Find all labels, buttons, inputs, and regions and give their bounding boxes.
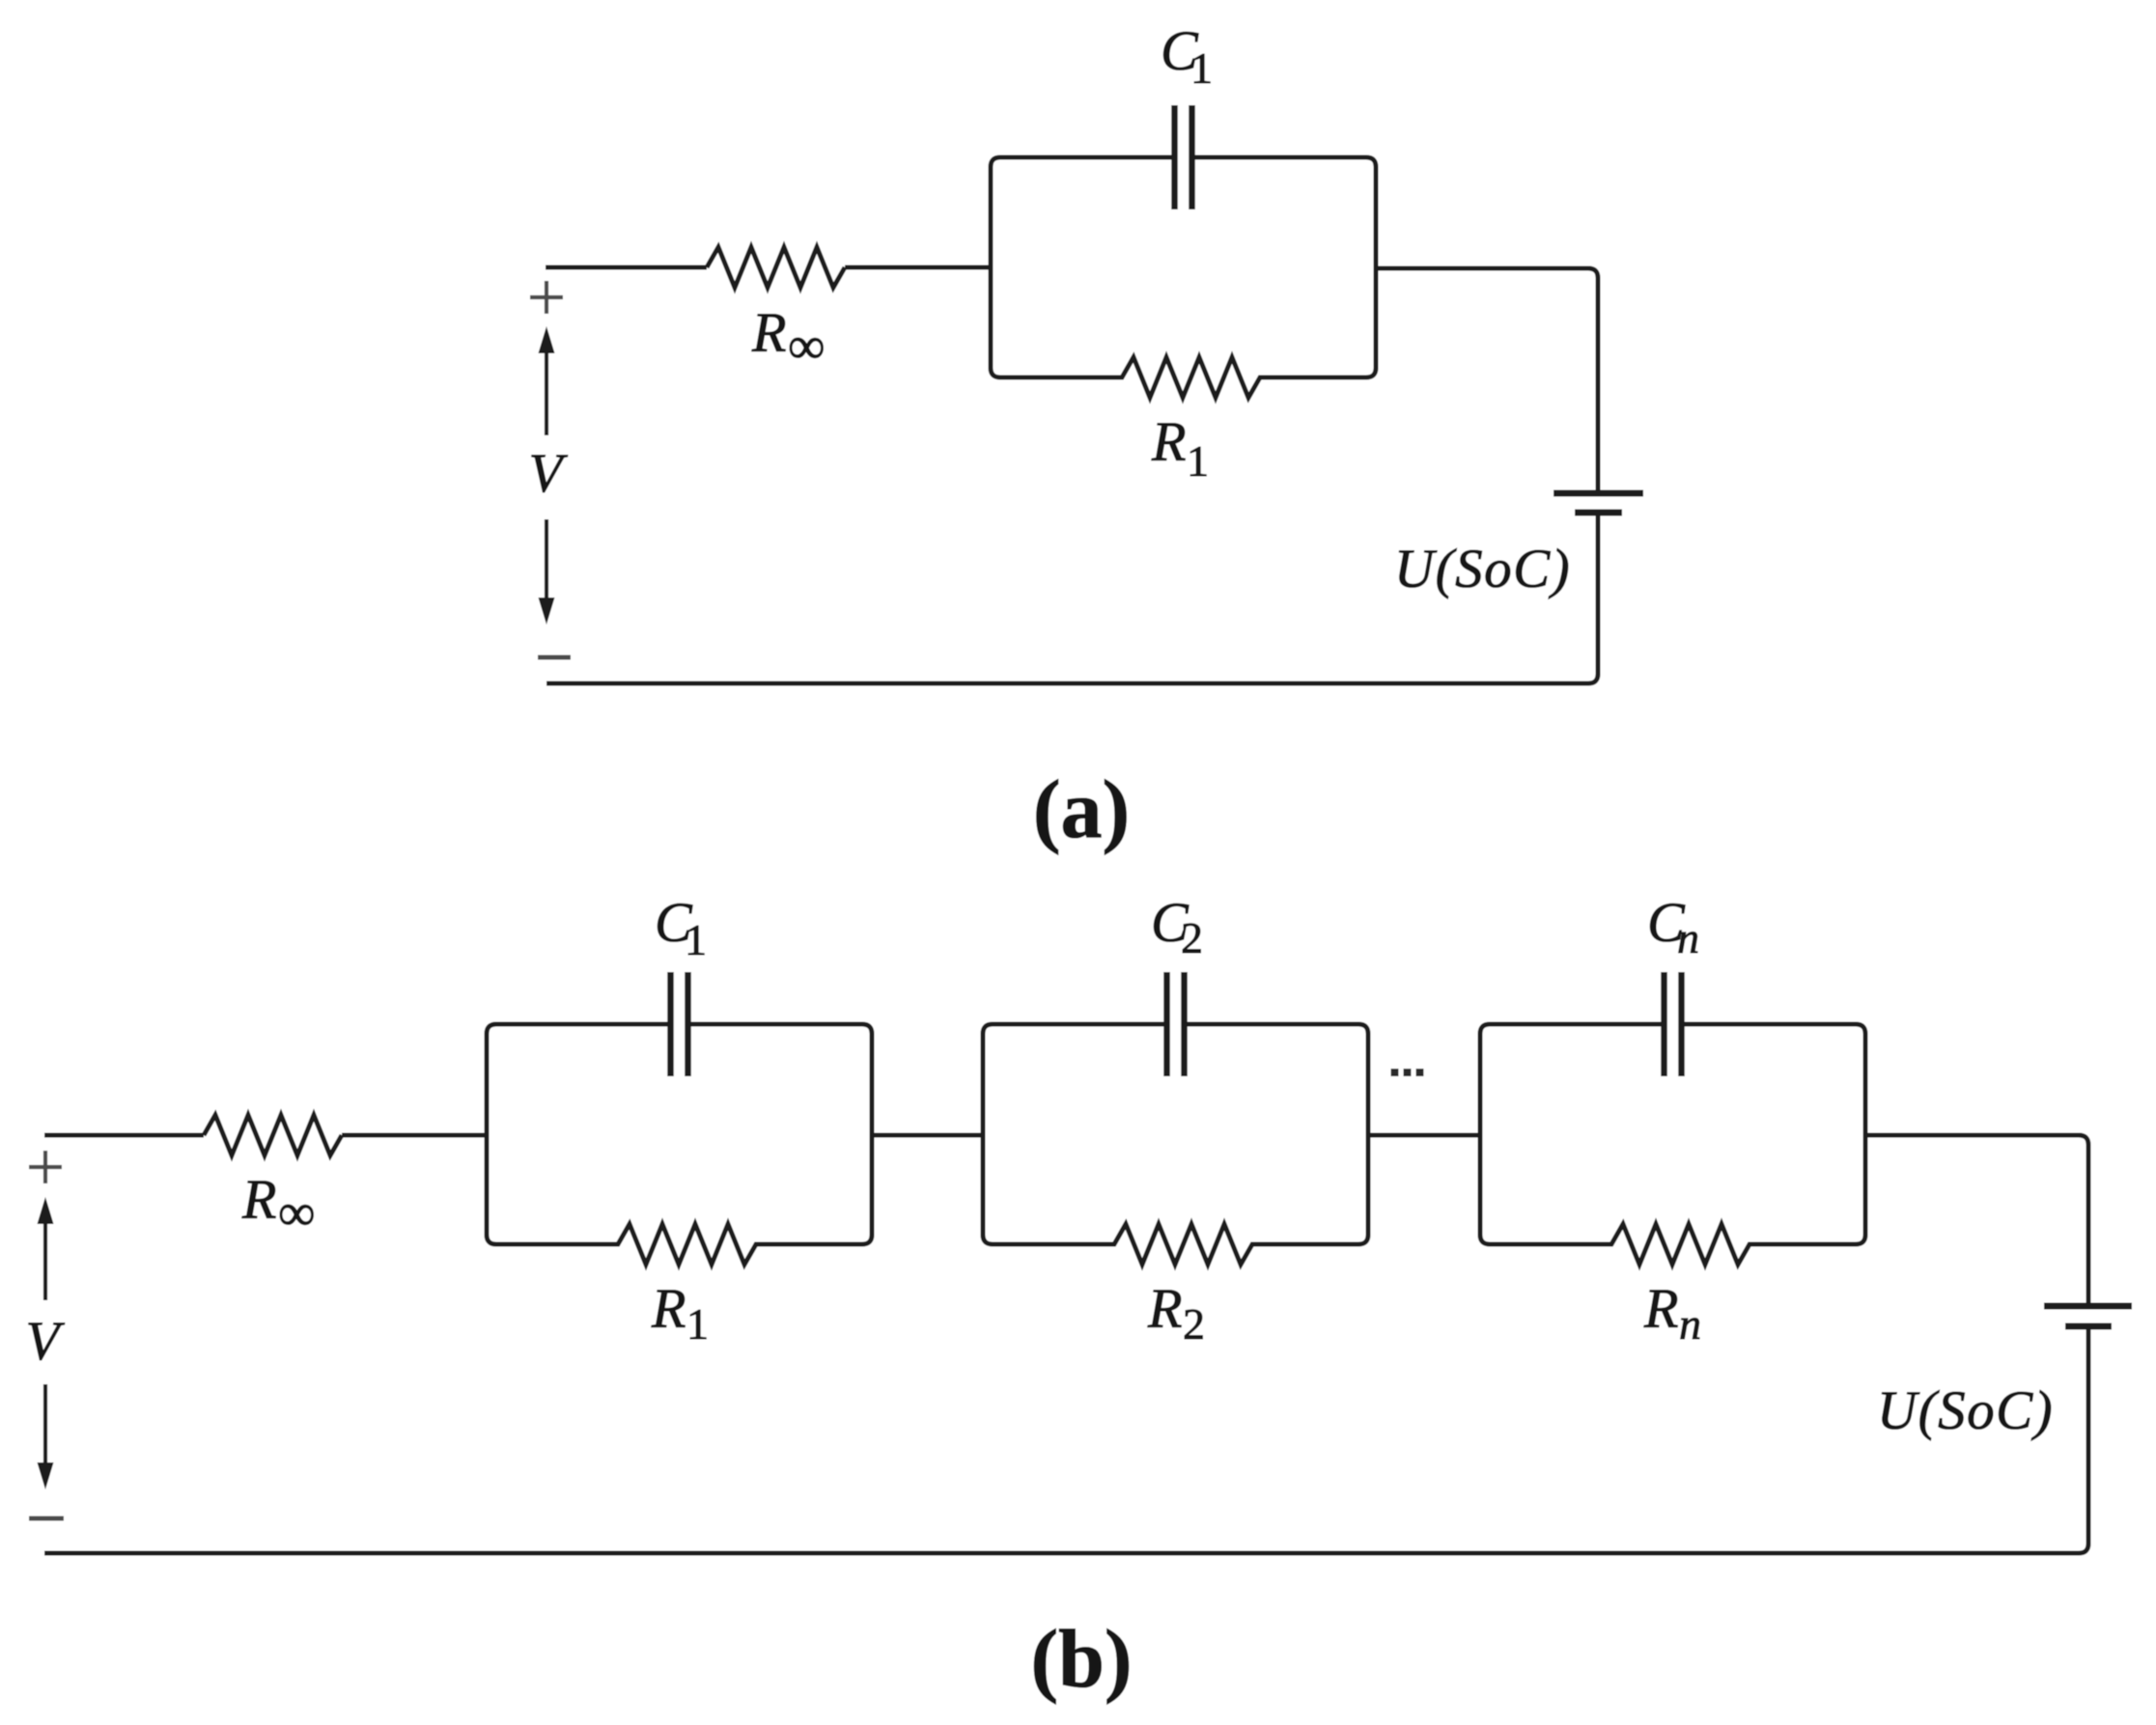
svg-text:U(SoC): U(SoC) [1877,1380,2054,1441]
svg-text:R: R [651,1277,686,1340]
svg-text:R: R [241,1168,276,1231]
svg-text:R: R [1147,1277,1182,1340]
svg-text:1: 1 [1190,43,1213,93]
svg-text:n: n [1679,1299,1701,1349]
svg-text:∞: ∞ [278,1183,316,1241]
svg-text:(b): (b) [1030,1612,1132,1705]
svg-text:n: n [1677,913,1699,962]
svg-text:∞: ∞ [788,317,826,375]
svg-text:(a): (a) [1033,763,1130,855]
svg-text:R: R [1151,410,1186,473]
svg-text:2: 2 [1183,1299,1205,1349]
svg-text:R: R [1643,1277,1678,1340]
svg-text:R: R [751,301,786,364]
svg-text:2: 2 [1181,913,1203,962]
svg-text:1: 1 [1187,436,1209,486]
svg-text:U(SoC): U(SoC) [1394,539,1571,599]
svg-text:1: 1 [685,915,707,964]
svg-text:1: 1 [686,1299,709,1349]
